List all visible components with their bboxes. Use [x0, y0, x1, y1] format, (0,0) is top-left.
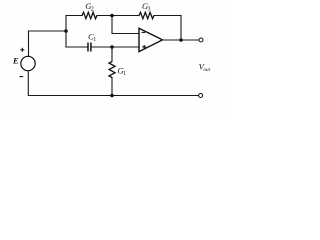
svg-text:1: 1: [93, 37, 96, 43]
svg-text:1: 1: [123, 71, 126, 77]
svg-text:3: 3: [148, 7, 151, 13]
svg-text:2: 2: [91, 7, 94, 13]
svg-text:out: out: [203, 67, 210, 73]
svg-text:E: E: [12, 56, 19, 66]
